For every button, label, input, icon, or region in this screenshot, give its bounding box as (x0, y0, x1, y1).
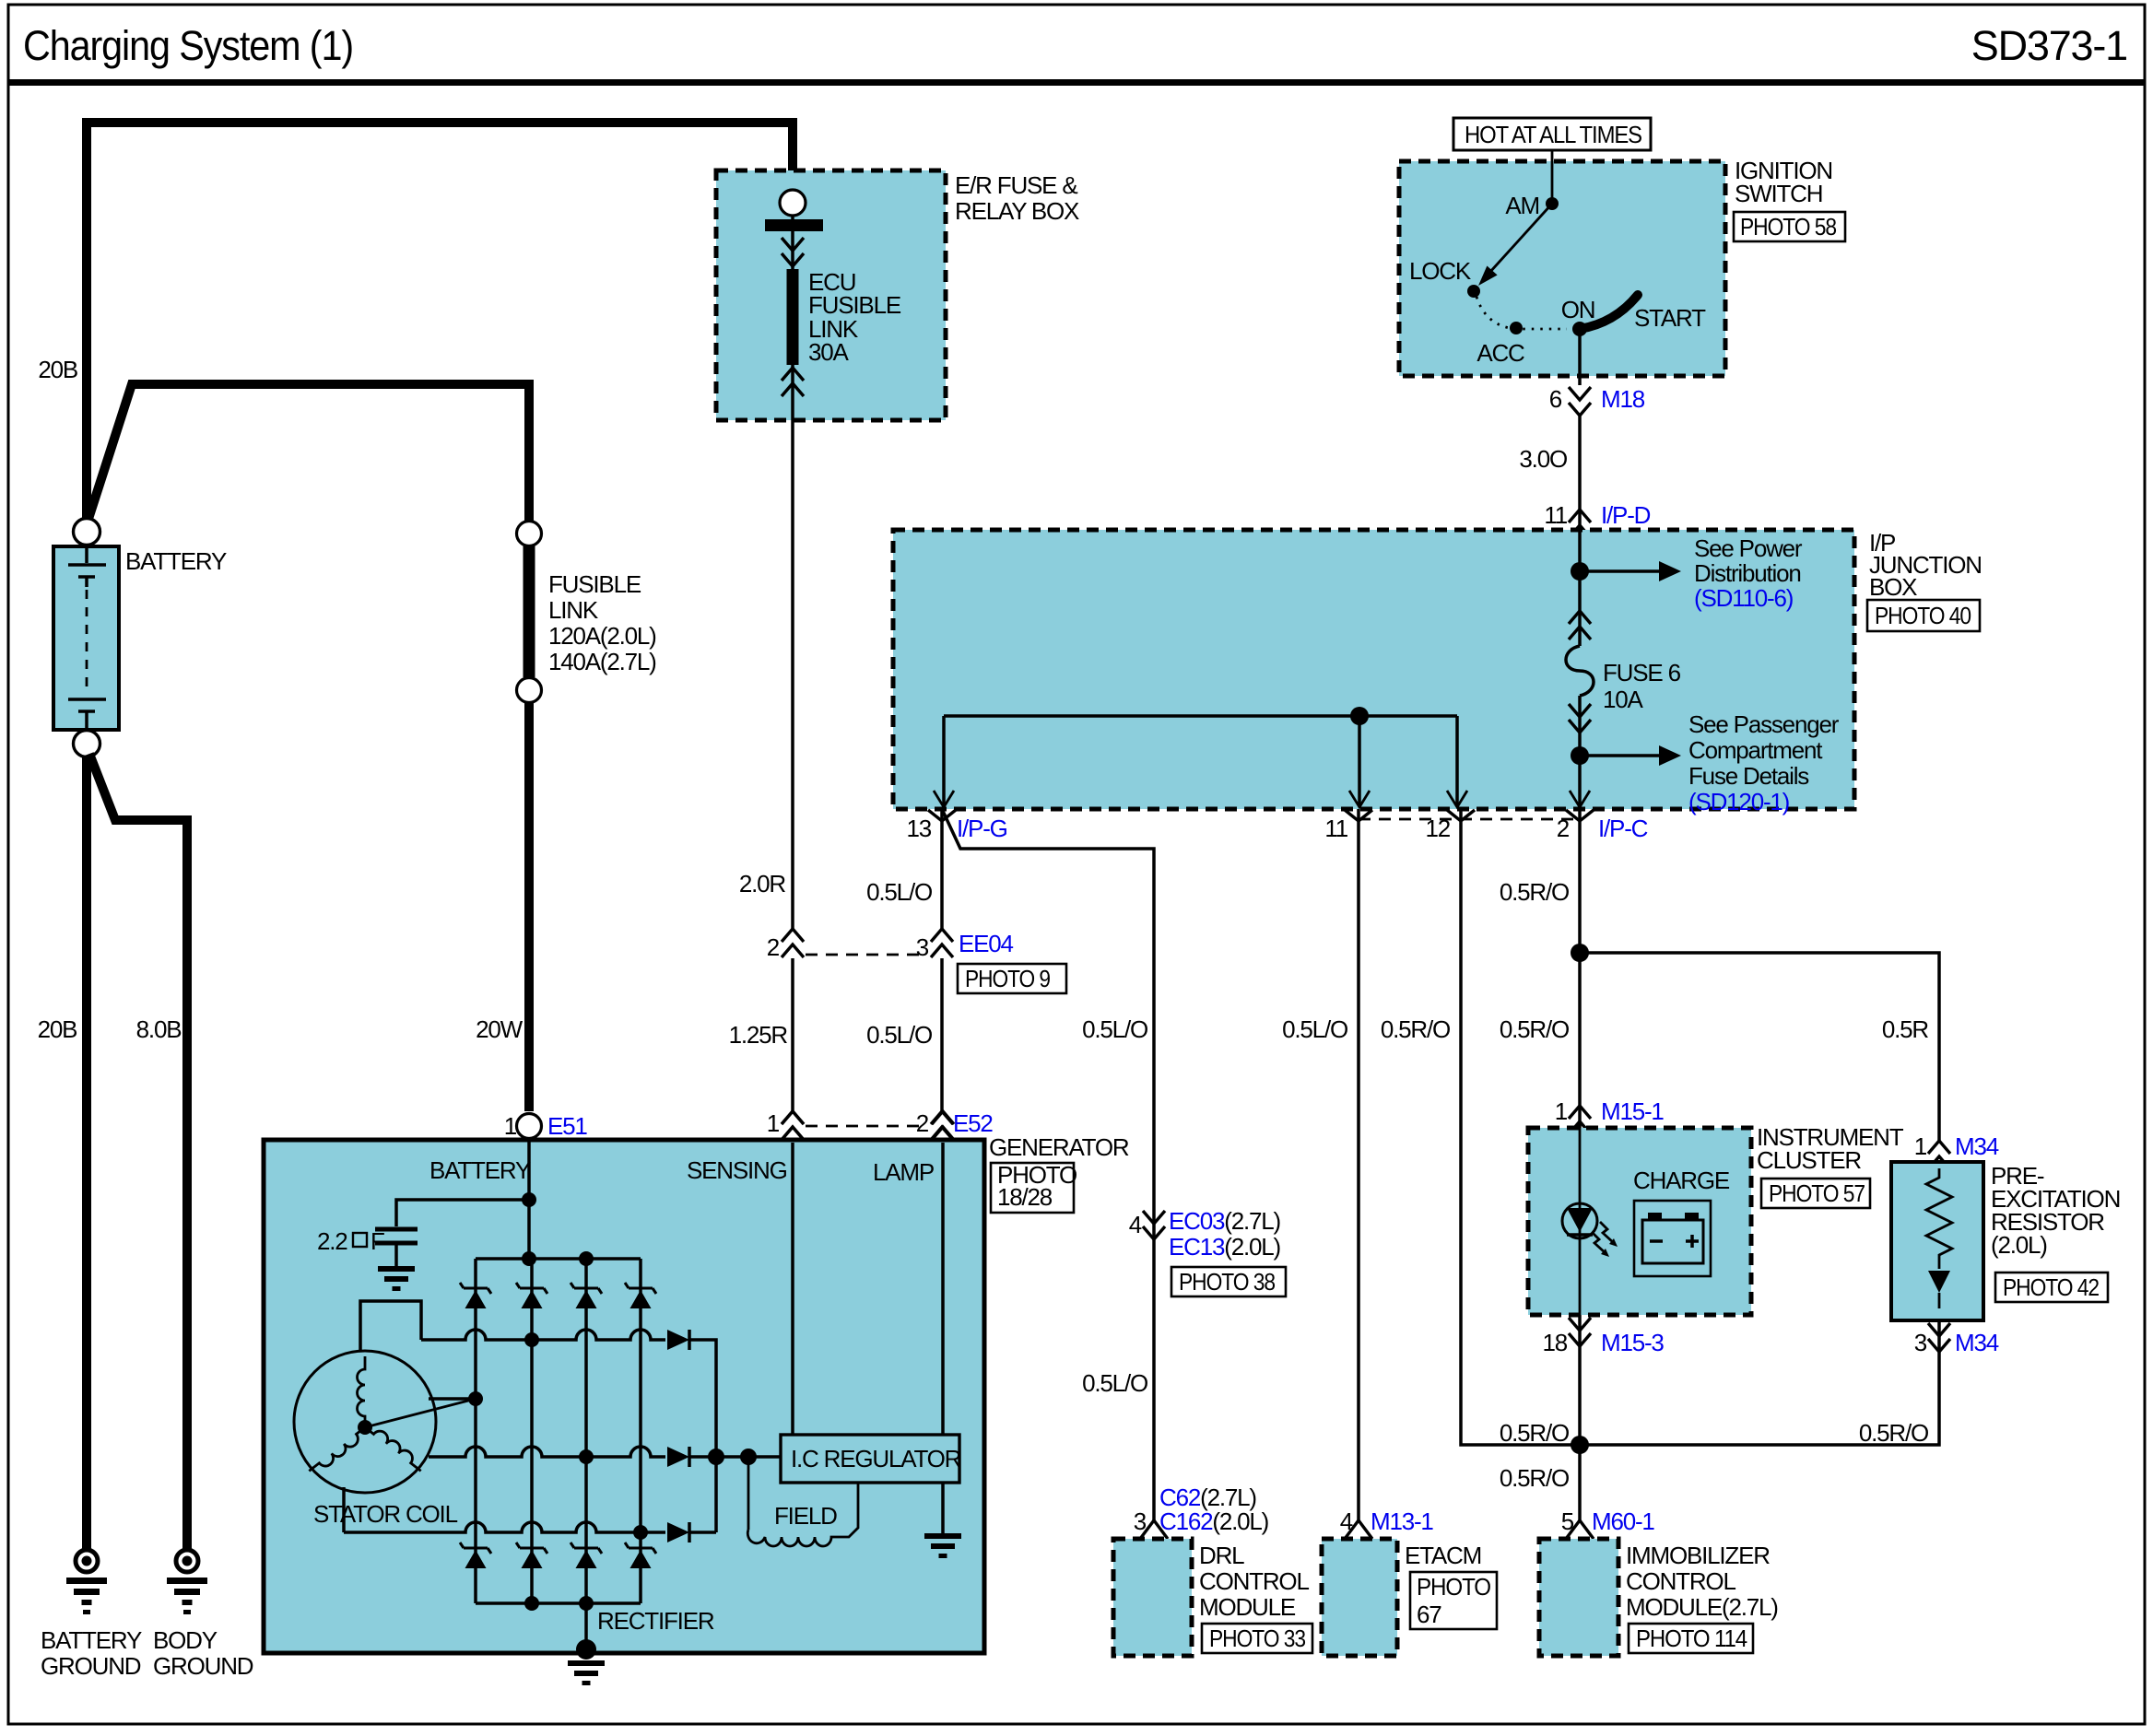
junction dot top bus a (522, 1251, 536, 1266)
svg-text:RECTIFIER: RECTIFIER (597, 1607, 714, 1635)
resistor zigzag (1926, 1168, 1952, 1269)
svg-text:1: 1 (1555, 1097, 1568, 1125)
stator center dot (358, 1420, 372, 1435)
battery telltale plus (1686, 1235, 1699, 1248)
I/P junction box (893, 530, 1854, 809)
svg-text:PHOTO 58: PHOTO 58 (1740, 213, 1837, 240)
battery (53, 546, 119, 730)
zener diode top column2 (516, 1283, 547, 1308)
svg-text:0.5R/O: 0.5R/O (1500, 1464, 1569, 1492)
wire LAMP pin down (941, 1143, 945, 1435)
svg-text:0.5R/O: 0.5R/O (1859, 1419, 1928, 1447)
resistor diode (1928, 1271, 1950, 1293)
connector E52 pin 1 chevrons (782, 1111, 804, 1140)
phase 1 line with hops (421, 1330, 665, 1340)
wire drop to pin 12 (1455, 716, 1459, 805)
wire drop to pin 11 (1358, 716, 1361, 805)
wire 1.25R to E52 pin 1 (791, 958, 794, 1113)
svg-text:PHOTO 114: PHOTO 114 (1636, 1625, 1747, 1652)
svg-text:11: 11 (1544, 501, 1567, 529)
wire 11 to ETACM (1357, 809, 1360, 1520)
junction dot power distribution (1571, 562, 1589, 581)
fusible link bottom circle (517, 678, 542, 703)
svg-text:M60-1: M60-1 (1592, 1507, 1654, 1535)
connector C62/C162 chevron (1140, 1520, 1168, 1539)
junction dot bottom bus b (579, 1596, 594, 1611)
svg-text:LINK: LINK (548, 596, 599, 624)
charge lamp LED bar (1567, 1233, 1593, 1237)
arrow to See Power Distribution (1580, 569, 1659, 573)
ignition switch box (1399, 161, 1725, 376)
wire from HOT box to AM terminal (1551, 150, 1554, 204)
rectifier column 2 (530, 1259, 534, 1603)
phase 1 connection from stator top (360, 1301, 421, 1351)
wire I/P-C down to immobilizer (1578, 809, 1582, 1520)
connector M15-1 chevrons (1569, 1106, 1591, 1134)
svg-text:EC13(2.0L): EC13(2.0L) (1169, 1233, 1281, 1261)
dashed link connectors 11-12-2 (1359, 818, 1580, 821)
svg-text:18/28: 18/28 (997, 1183, 1053, 1211)
wire: battery positive feed (20B) from battery to top run and E/R fuse box (87, 123, 793, 522)
phase 3 line with hops (344, 1522, 665, 1532)
svg-text:E/R FUSE &: E/R FUSE & (955, 171, 1077, 199)
output diode phase1 (667, 1330, 689, 1350)
svg-text:Charging System (1): Charging System (1) (23, 22, 353, 69)
svg-text:EC03(2.7L): EC03(2.7L) (1169, 1207, 1281, 1235)
PHOTO 57 box (1761, 1179, 1870, 1208)
wire: battery ground 20B (82, 757, 91, 1550)
PHOTO 114 box (1629, 1624, 1753, 1653)
light emission arrows (1600, 1222, 1614, 1243)
DRL control module box (1113, 1539, 1192, 1656)
svg-text:I/P-C: I/P-C (1598, 815, 1648, 842)
zener diode top column4 (625, 1283, 656, 1308)
fuse 6 10A symbol (1566, 646, 1594, 696)
svg-text:20B: 20B (38, 1015, 77, 1043)
wire 0.5L/O EE04 to E52 pin 2 (940, 958, 944, 1113)
junction dot field tap (740, 1449, 757, 1465)
zener diode bottom column4 (625, 1542, 656, 1568)
arrow to See Passenger Compartment Fuse Details (1580, 754, 1659, 757)
svg-text:SENSING: SENSING (687, 1156, 787, 1184)
svg-text:ACC: ACC (1477, 339, 1524, 367)
zener diode top column1 (460, 1283, 491, 1308)
field coil (747, 1483, 858, 1546)
svg-text:13: 13 (906, 815, 931, 842)
svg-text:20B: 20B (38, 356, 77, 383)
HOT AT ALL TIMES box (1453, 118, 1651, 150)
battery ground symbol (66, 1578, 107, 1614)
wire drop main to I/P-C (1570, 791, 1590, 807)
immobilizer control module box (1539, 1539, 1618, 1656)
svg-text:SWITCH: SWITCH (1735, 180, 1822, 207)
rectifier column 1 (474, 1259, 477, 1603)
svg-text:DRL: DRL (1199, 1542, 1244, 1569)
wire field tap down (747, 1457, 750, 1530)
svg-text:I/P-D: I/P-D (1601, 501, 1651, 529)
connector 12 chevrons (1447, 810, 1475, 821)
svg-text:M15-3: M15-3 (1601, 1329, 1664, 1356)
fusible link 120A/140A bar (524, 545, 535, 677)
instrument cluster box (1528, 1128, 1751, 1315)
wire marker chevrons below fuse (1569, 704, 1591, 733)
connector M34 pin3 chevrons (1928, 1323, 1950, 1352)
dashed link E52 (806, 1125, 927, 1128)
junction dot in-box bus (1350, 707, 1369, 725)
connector chevrons below fuse bar (782, 238, 804, 266)
LOCK terminal dot (1467, 285, 1480, 298)
regulator ground symbol (924, 1533, 961, 1558)
PHOTO 42 box (1995, 1273, 2108, 1302)
generator box (264, 1140, 984, 1653)
svg-text:0.5L/O: 0.5L/O (1282, 1015, 1347, 1043)
svg-text:HOT AT ALL TIMES: HOT AT ALL TIMES (1465, 121, 1642, 148)
svg-text:AM: AM (1505, 192, 1539, 219)
zener diode bottom column2 (516, 1542, 547, 1568)
rectifier ground symbol (568, 1660, 605, 1685)
E/R fuse & relay box (716, 170, 946, 420)
PHOTO 33 box (1202, 1624, 1312, 1653)
svg-text:4: 4 (1129, 1211, 1142, 1238)
svg-text:See Passenger: See Passenger (1688, 710, 1840, 738)
connector 11 chevrons (1345, 810, 1372, 821)
svg-text:Distribution: Distribution (1694, 559, 1801, 587)
rectifier top bus (476, 1257, 641, 1261)
svg-text:(2.0L): (2.0L) (1991, 1231, 2047, 1259)
connector I/P-D chevrons (1569, 510, 1591, 538)
wire diode outputs vertical bus (689, 1340, 781, 1532)
svg-text:PHOTO: PHOTO (1417, 1573, 1490, 1601)
PHOTO 40 box (1867, 600, 1980, 631)
svg-text:0.5L/O: 0.5L/O (866, 1021, 932, 1049)
svg-text:0.5L/O: 0.5L/O (1082, 1015, 1147, 1043)
battery internal dashed center line (86, 590, 88, 693)
PHOTO 58 box (1734, 212, 1845, 241)
PHOTO 67 box (1410, 1572, 1497, 1629)
svg-text:140A(2.7L): 140A(2.7L) (548, 648, 656, 675)
dotted detent arc LOCK-ACC-ON (1477, 297, 1567, 329)
svg-text:30A: 30A (808, 338, 850, 366)
connector EE04 pin 3 chevrons (931, 929, 953, 957)
stator winding top (357, 1356, 365, 1427)
svg-text:STATOR COIL: STATOR COIL (313, 1500, 458, 1528)
svg-text:2: 2 (916, 1109, 929, 1137)
junction dot phase1-col2 (524, 1332, 539, 1347)
stator circle (294, 1351, 436, 1493)
connector M60-1 chevron (1566, 1520, 1594, 1539)
connector circle battery top (74, 519, 100, 545)
svg-text:0.5R: 0.5R (1882, 1015, 1929, 1043)
junction dot phase3-col4 (633, 1525, 648, 1540)
junction dot pre-excitation branch (1571, 944, 1589, 962)
wire ignition to M18 (1578, 329, 1582, 385)
svg-text:5: 5 (1561, 1507, 1574, 1535)
svg-text:4: 4 (1340, 1507, 1353, 1535)
junction dot stub-col1 (468, 1391, 483, 1406)
junction dot immobilizer node (1571, 1436, 1589, 1454)
svg-text:1: 1 (767, 1109, 780, 1137)
wire: fusible link feed branch from battery (88, 384, 529, 522)
phase 2 line with hops (429, 1447, 665, 1457)
ECU fusible link 30A bar (787, 269, 799, 365)
capacitor 2.2uF plates (375, 1229, 418, 1243)
rectifier column 3 (584, 1259, 588, 1603)
svg-text:I.C REGULATOR: I.C REGULATOR (791, 1445, 961, 1472)
battery ground ring terminal (76, 1550, 98, 1572)
connector EC03/EC13 chevrons (1143, 1211, 1165, 1239)
svg-text:3.0O: 3.0O (1519, 445, 1567, 473)
fuse terminal circle (780, 190, 806, 216)
svg-text:I/P-G: I/P-G (957, 815, 1007, 842)
svg-text:3: 3 (916, 933, 929, 961)
svg-text:MODULE(2.7L): MODULE(2.7L) (1626, 1593, 1778, 1621)
connector circle E51 pin 1 (517, 1114, 542, 1139)
svg-text:2: 2 (767, 933, 780, 961)
svg-text:M34: M34 (1955, 1329, 1999, 1356)
svg-text:0.5R/O: 0.5R/O (1381, 1015, 1450, 1043)
svg-text:See Power: See Power (1694, 534, 1803, 562)
svg-text:GROUND: GROUND (153, 1652, 253, 1680)
svg-text:ETACM: ETACM (1405, 1542, 1481, 1569)
svg-text:2.0R: 2.0R (739, 870, 786, 897)
svg-text:Compartment: Compartment (1688, 736, 1823, 764)
battery internal plates (68, 546, 106, 730)
ignition switch blade AM to LOCK (1489, 204, 1552, 273)
connector M34 pin1 chevrons (1928, 1141, 1950, 1169)
ETACM box (1322, 1539, 1397, 1656)
wire through charge lamp (1579, 1128, 1582, 1315)
svg-text:FUSIBLE: FUSIBLE (548, 570, 641, 598)
wire I/P-G branch to EE04 pin 3 (940, 809, 944, 931)
junction dot phase2-col3 (579, 1449, 594, 1464)
svg-text:BATTERY: BATTERY (429, 1156, 531, 1184)
junction dot battery node (522, 1192, 536, 1207)
wire branch from I/P-G to DRL column (942, 809, 1154, 1520)
svg-text:C162(2.0L): C162(2.0L) (1159, 1507, 1269, 1535)
connector EE04 pin 2 chevrons (782, 929, 804, 957)
wire to capacitor branch (396, 1200, 529, 1226)
svg-text:0.5R/O: 0.5R/O (1500, 1015, 1569, 1043)
I.C regulator box (781, 1435, 959, 1483)
svg-text:3: 3 (1134, 1507, 1147, 1535)
wire M18 to I/P-D (1578, 416, 1582, 530)
svg-text:1: 1 (504, 1112, 517, 1140)
rectifier bottom bus (476, 1601, 641, 1605)
rectifier ground dot (576, 1639, 596, 1660)
wire M34 pin3 to junction (1580, 1320, 1939, 1445)
svg-text:CONTROL: CONTROL (1626, 1567, 1735, 1595)
svg-text:PHOTO 38: PHOTO 38 (1179, 1268, 1276, 1296)
svg-text:IMMOBILIZER: IMMOBILIZER (1626, 1542, 1770, 1569)
output diode phase2 (667, 1447, 689, 1467)
wire regulator ground (941, 1483, 945, 1533)
battery telltale terminals (1648, 1213, 1662, 1220)
charge lamp LED circle (1562, 1203, 1597, 1238)
connector M15-3 chevrons (1569, 1318, 1591, 1346)
ACC terminal dot (1510, 322, 1523, 334)
svg-text:ON: ON (1561, 296, 1595, 323)
svg-text:M13-1: M13-1 (1371, 1507, 1433, 1535)
PHOTO 38 box (1171, 1267, 1286, 1296)
wire inside E/R box down to EE04 (791, 214, 794, 931)
connector chevrons below ECU fusible link (782, 368, 804, 396)
fusible link top circle (517, 522, 542, 546)
junction dot passenger fuse (1571, 746, 1589, 765)
svg-text:BOX: BOX (1869, 573, 1917, 601)
svg-text:M15-1: M15-1 (1601, 1097, 1664, 1125)
title separator bar (8, 79, 2145, 86)
junction dot output bus (708, 1449, 724, 1465)
connector E52 pin 2 chevrons (931, 1111, 953, 1140)
PHOTO 18/28 box (991, 1163, 1074, 1213)
wire marker chevrons above fuse (1569, 611, 1591, 639)
dashed link EE04 (806, 954, 927, 956)
output diode phase3 (667, 1522, 689, 1542)
svg-text:Fuse Details: Fuse Details (1688, 762, 1809, 790)
svg-text:3: 3 (1914, 1329, 1927, 1356)
svg-text:BATTERY: BATTERY (125, 547, 227, 575)
wire drop to I/P-G (942, 716, 946, 805)
svg-text:120A(2.0L): 120A(2.0L) (548, 622, 656, 650)
svg-text:START: START (1634, 304, 1706, 332)
svg-text:(SD110-6): (SD110-6) (1694, 584, 1794, 612)
AM terminal dot (1546, 197, 1559, 210)
body ground symbol (167, 1578, 207, 1614)
svg-text:PHOTO 9: PHOTO 9 (965, 965, 1051, 992)
battery telltale icon outer box (1634, 1201, 1711, 1276)
battery telltale minus (1650, 1239, 1663, 1243)
wire main stem to rectifier top bus (527, 1200, 531, 1259)
battery telltale body (1642, 1220, 1703, 1263)
svg-text:2.2: 2.2 (317, 1227, 347, 1255)
svg-text:M34: M34 (1955, 1132, 1999, 1160)
svg-text:PHOTO 57: PHOTO 57 (1769, 1179, 1865, 1207)
svg-text:PHOTO 40: PHOTO 40 (1875, 602, 1971, 629)
svg-text:(SD120-1): (SD120-1) (1688, 788, 1790, 815)
wire: body ground branch 8.0B (89, 754, 187, 1550)
zener diode bottom column3 (571, 1542, 602, 1568)
connector E52 pin2 entry chevrons (LAMP) (932, 1111, 954, 1140)
svg-text:EE04: EE04 (959, 930, 1014, 957)
svg-text:0.5R/O: 0.5R/O (1500, 1419, 1569, 1447)
svg-text:6: 6 (1549, 385, 1562, 413)
stator winding left (365, 1421, 426, 1471)
connector I/P-C chevrons (1566, 810, 1594, 821)
svg-text:FIELD: FIELD (774, 1502, 837, 1530)
svg-text:MODULE: MODULE (1199, 1593, 1296, 1621)
wire inside I/P box main vertical (1578, 530, 1582, 809)
pre-excitation resistor box (1891, 1162, 1983, 1320)
rectifier column 4 (639, 1259, 642, 1603)
connector E52 pin1 entry chevrons (SENSING) (782, 1111, 804, 1140)
wire SENSING pin to regulator (791, 1143, 794, 1435)
connector I/P-G chevrons (928, 810, 956, 821)
svg-text:BODY: BODY (153, 1626, 218, 1654)
svg-text:GENERATOR: GENERATOR (989, 1133, 1129, 1161)
svg-text:PHOTO 42: PHOTO 42 (2003, 1273, 2100, 1301)
ON terminal dot (1572, 322, 1587, 336)
stator winding right (309, 1427, 370, 1477)
svg-text:E52: E52 (953, 1109, 993, 1137)
PHOTO 9 box (958, 964, 1066, 993)
wire: 20W from fusible link to generator E51 (524, 702, 534, 1111)
phase 3 connection from stator bottom (342, 1487, 346, 1532)
svg-text:LOCK: LOCK (1409, 257, 1472, 285)
svg-text:0.5L/O: 0.5L/O (1082, 1369, 1147, 1397)
svg-text:0.5L/O: 0.5L/O (866, 878, 932, 906)
stator tap line to rectifier column (365, 1399, 476, 1427)
svg-text:18: 18 (1542, 1329, 1567, 1356)
connector M13-1 chevron (1345, 1520, 1372, 1539)
svg-text:20W: 20W (476, 1015, 524, 1043)
svg-text:BATTERY: BATTERY (41, 1626, 142, 1654)
svg-text:GROUND: GROUND (41, 1652, 141, 1680)
START lever arc (1580, 295, 1638, 329)
svg-text:11: 11 (1324, 815, 1347, 842)
svg-text:F: F (371, 1227, 384, 1255)
body ground ring terminal (176, 1550, 198, 1572)
charge lamp LED triangle (1567, 1208, 1593, 1232)
svg-text:E51: E51 (547, 1112, 587, 1140)
wire 12 to immobilizer node (1461, 809, 1571, 1445)
zener diode bottom column1 (460, 1542, 491, 1568)
capacitor stem (394, 1245, 398, 1266)
svg-text:M18: M18 (1601, 385, 1645, 413)
svg-text:RELAY BOX: RELAY BOX (955, 197, 1079, 225)
stator stub to column1 (429, 1397, 476, 1401)
fuse bar (765, 219, 823, 231)
connector M18 chevrons (1569, 387, 1591, 416)
svg-text:10A: 10A (1603, 686, 1644, 713)
connector circle battery bottom (74, 731, 100, 757)
svg-text:1: 1 (1914, 1132, 1927, 1160)
svg-text:CLUSTER: CLUSTER (1757, 1146, 1861, 1174)
svg-text:1.25R: 1.25R (729, 1021, 788, 1049)
svg-text:FUSE 6: FUSE 6 (1603, 659, 1681, 686)
zener diode top column3 (571, 1283, 602, 1308)
svg-text:CHARGE: CHARGE (1633, 1167, 1730, 1194)
svg-text:SD373-1: SD373-1 (1971, 22, 2127, 69)
wire branch to pre-excitation resistor (1580, 953, 1939, 1143)
svg-text:0.5R/O: 0.5R/O (1500, 878, 1569, 906)
junction dot bottom bus a (524, 1596, 539, 1611)
svg-text:PHOTO 33: PHOTO 33 (1209, 1625, 1306, 1652)
wire in-box horizontal bus (944, 714, 1457, 718)
svg-text:CONTROL: CONTROL (1199, 1567, 1309, 1595)
junction dot top bus b (579, 1251, 594, 1266)
rectifier ground stem (584, 1603, 588, 1646)
svg-text:8.0B: 8.0B (136, 1015, 182, 1043)
wire E51 stem (527, 1139, 531, 1200)
svg-text:LAMP: LAMP (873, 1158, 934, 1186)
capacitor ground (378, 1266, 415, 1291)
svg-text:67: 67 (1417, 1601, 1441, 1628)
